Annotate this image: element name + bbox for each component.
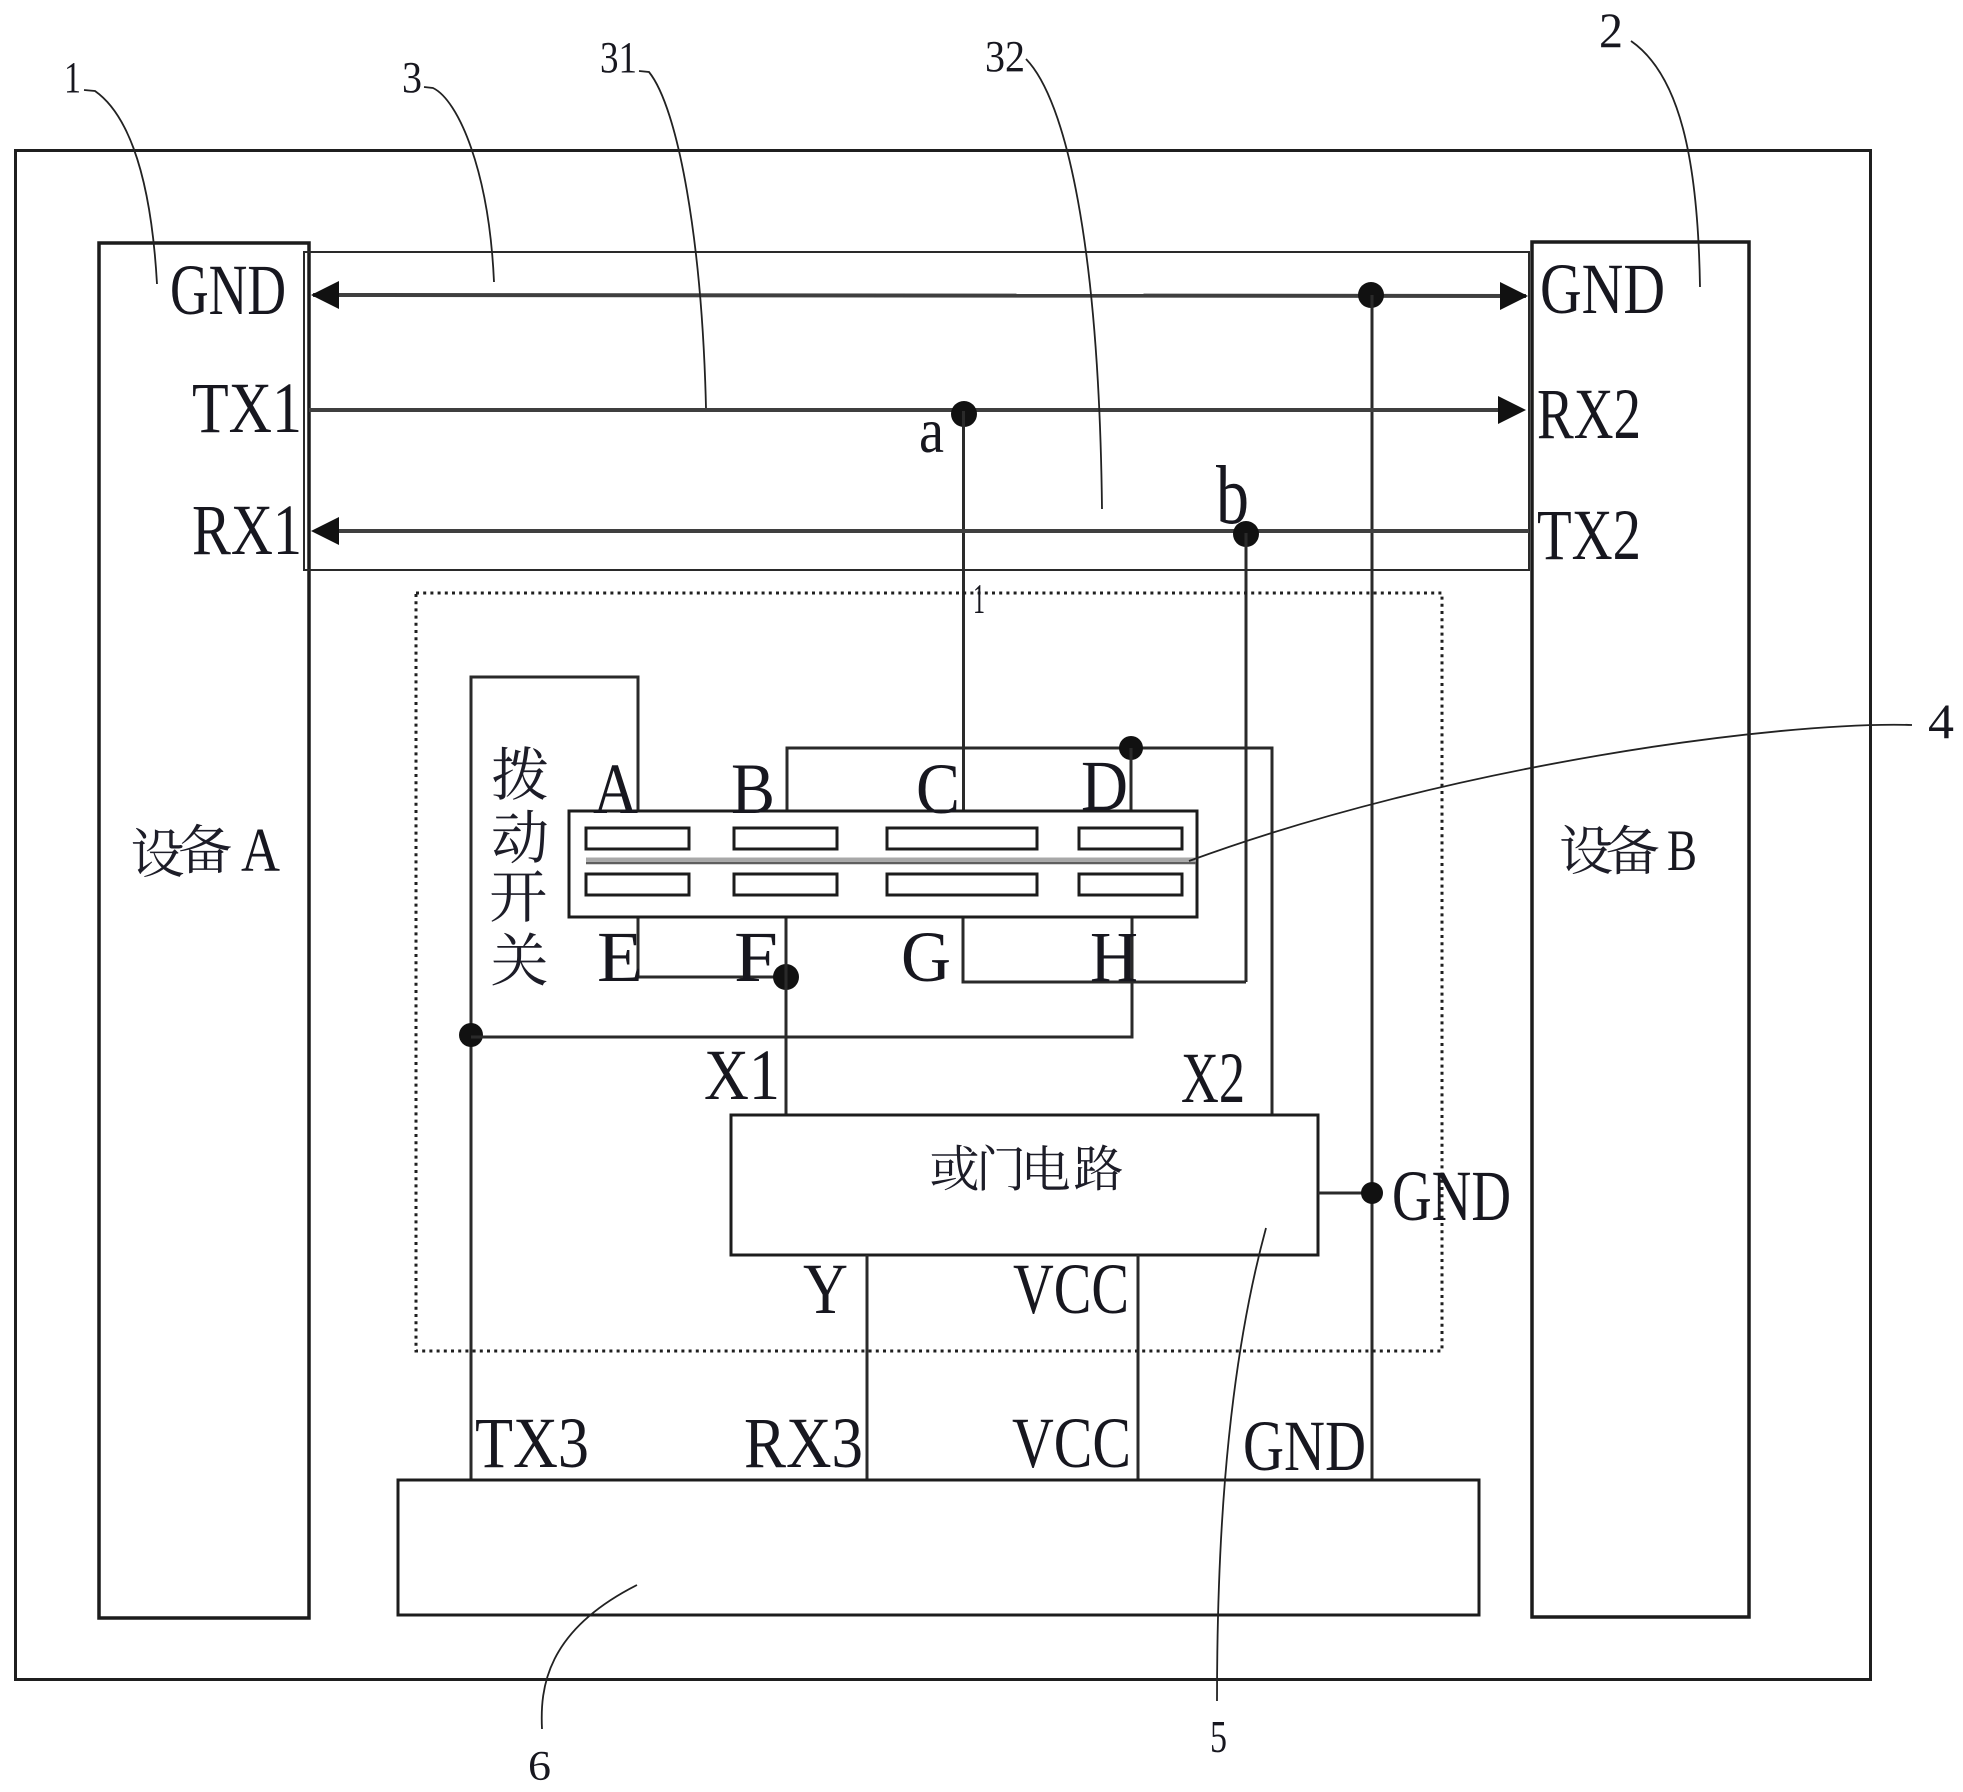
svg-text:E: E xyxy=(597,917,643,997)
switch contact C rect xyxy=(887,828,1037,849)
svg-text:GND: GND xyxy=(1392,1156,1511,1236)
OR-gate box (5) xyxy=(731,1115,1318,1255)
svg-text:TX3: TX3 xyxy=(475,1403,589,1483)
svg-text:F: F xyxy=(734,917,778,997)
OR-gate label 路 xyxy=(1075,1145,1122,1191)
svg-text:A: A xyxy=(241,817,280,885)
leader 1 xyxy=(84,90,157,284)
wire GND riser xyxy=(1371,295,1374,1480)
GND left arrowhead xyxy=(311,281,339,309)
wire GND line xyxy=(313,295,1526,296)
dotted module box xyxy=(416,593,1442,1351)
GND right arrowhead xyxy=(1500,282,1528,310)
svg-text:H: H xyxy=(1090,917,1138,997)
device A label 设 xyxy=(133,828,183,877)
switch contact B rect xyxy=(734,828,837,849)
svg-text:A: A xyxy=(593,749,638,829)
wire B-D-X2 link xyxy=(787,748,1272,1115)
wire F riser to X1 xyxy=(785,917,788,1115)
svg-text:GND: GND xyxy=(1243,1406,1366,1486)
RX2 arrowhead xyxy=(1498,396,1526,424)
switch label 动 xyxy=(493,810,547,863)
node dot D junction xyxy=(1119,736,1143,760)
svg-text:32: 32 xyxy=(985,32,1025,81)
switch contact E rect xyxy=(586,874,689,895)
wire TX3 riser / A-wire xyxy=(471,677,638,1480)
svg-text:C: C xyxy=(916,749,960,829)
node dot TX3/H junction xyxy=(459,1023,483,1047)
leader 4 xyxy=(1189,725,1912,861)
switch contact A rect xyxy=(586,828,689,849)
cable bus rectangle (3) xyxy=(304,252,1529,570)
svg-text:B: B xyxy=(731,749,775,829)
device B box (2) xyxy=(1532,242,1749,1617)
device A label 备 xyxy=(180,824,231,874)
RX1 arrowhead xyxy=(311,517,339,545)
svg-text:X1: X1 xyxy=(704,1035,780,1115)
svg-text:a: a xyxy=(919,395,944,466)
svg-text:31: 31 xyxy=(600,33,637,82)
leader 32 xyxy=(1026,59,1102,509)
svg-text:4: 4 xyxy=(1928,693,1954,749)
leader 6 xyxy=(542,1585,637,1729)
switch contact H rect xyxy=(1079,874,1182,895)
wire RX1-TX2 line (32) xyxy=(335,529,1529,533)
OR-gate label 门 xyxy=(982,1145,1023,1191)
svg-text:GND: GND xyxy=(170,250,286,330)
svg-text:3: 3 xyxy=(402,53,422,102)
switch contact G rect xyxy=(887,874,1037,895)
svg-text:D: D xyxy=(1081,746,1128,826)
svg-text:TX1: TX1 xyxy=(192,368,302,448)
svg-text:RX3: RX3 xyxy=(744,1403,863,1483)
OR-gate label 电 xyxy=(1027,1145,1069,1190)
switch label 拨 xyxy=(493,746,547,800)
leader 31 xyxy=(639,71,706,408)
toggle switch block (4) xyxy=(569,811,1197,917)
OR-gate label 或 xyxy=(931,1145,977,1191)
wire b riser xyxy=(1245,533,1248,982)
svg-text:VCC: VCC xyxy=(1013,1249,1129,1329)
svg-text:RX1: RX1 xyxy=(192,490,302,570)
switch contact D rect xyxy=(1079,828,1182,849)
leader 2 xyxy=(1631,41,1700,287)
node dot GND/riser junction xyxy=(1358,282,1384,308)
svg-text:TX2: TX2 xyxy=(1537,495,1641,575)
leader 5 xyxy=(1217,1228,1266,1701)
switch contact F rect xyxy=(734,874,837,895)
wire C riser from node a xyxy=(962,411,965,811)
node a dot xyxy=(951,401,977,427)
wire Y riser xyxy=(866,1255,869,1480)
device B label 设 xyxy=(1561,825,1611,874)
svg-text:B: B xyxy=(1667,818,1697,883)
svg-text:2: 2 xyxy=(1599,2,1623,58)
leader 3 xyxy=(424,87,494,282)
node dot OR GND xyxy=(1361,1182,1383,1204)
svg-text:GND: GND xyxy=(1540,249,1665,329)
wire D riser xyxy=(1130,748,1133,811)
OR-gate GND stub xyxy=(1318,1192,1372,1195)
wire TX1-RX2 line (31) xyxy=(309,408,1502,412)
switch label 关 xyxy=(492,933,546,986)
svg-text:G: G xyxy=(901,917,951,997)
switch label 开 xyxy=(491,870,545,921)
svg-text:VCC: VCC xyxy=(1012,1403,1131,1483)
node dot F junction xyxy=(773,964,799,990)
switch slider middle line xyxy=(586,858,1196,862)
node b dot xyxy=(1233,521,1259,547)
wire E-F link xyxy=(638,917,786,977)
wire G-b link xyxy=(963,917,1246,982)
svg-text:1: 1 xyxy=(973,577,985,623)
svg-text:1: 1 xyxy=(64,53,81,102)
svg-text:5: 5 xyxy=(1210,1712,1227,1762)
svg-text:RX2: RX2 xyxy=(1537,374,1641,454)
svg-text:Y: Y xyxy=(803,1249,848,1329)
wire H branch xyxy=(471,917,1132,1037)
device A box (1) xyxy=(99,243,309,1618)
svg-text:6: 6 xyxy=(528,1744,551,1790)
bottom controller box (6) xyxy=(398,1480,1479,1615)
device B label 备 xyxy=(1608,825,1659,875)
svg-text:X2: X2 xyxy=(1181,1038,1245,1118)
wire VCC riser xyxy=(1137,1255,1140,1480)
svg-text:b: b xyxy=(1216,449,1249,542)
